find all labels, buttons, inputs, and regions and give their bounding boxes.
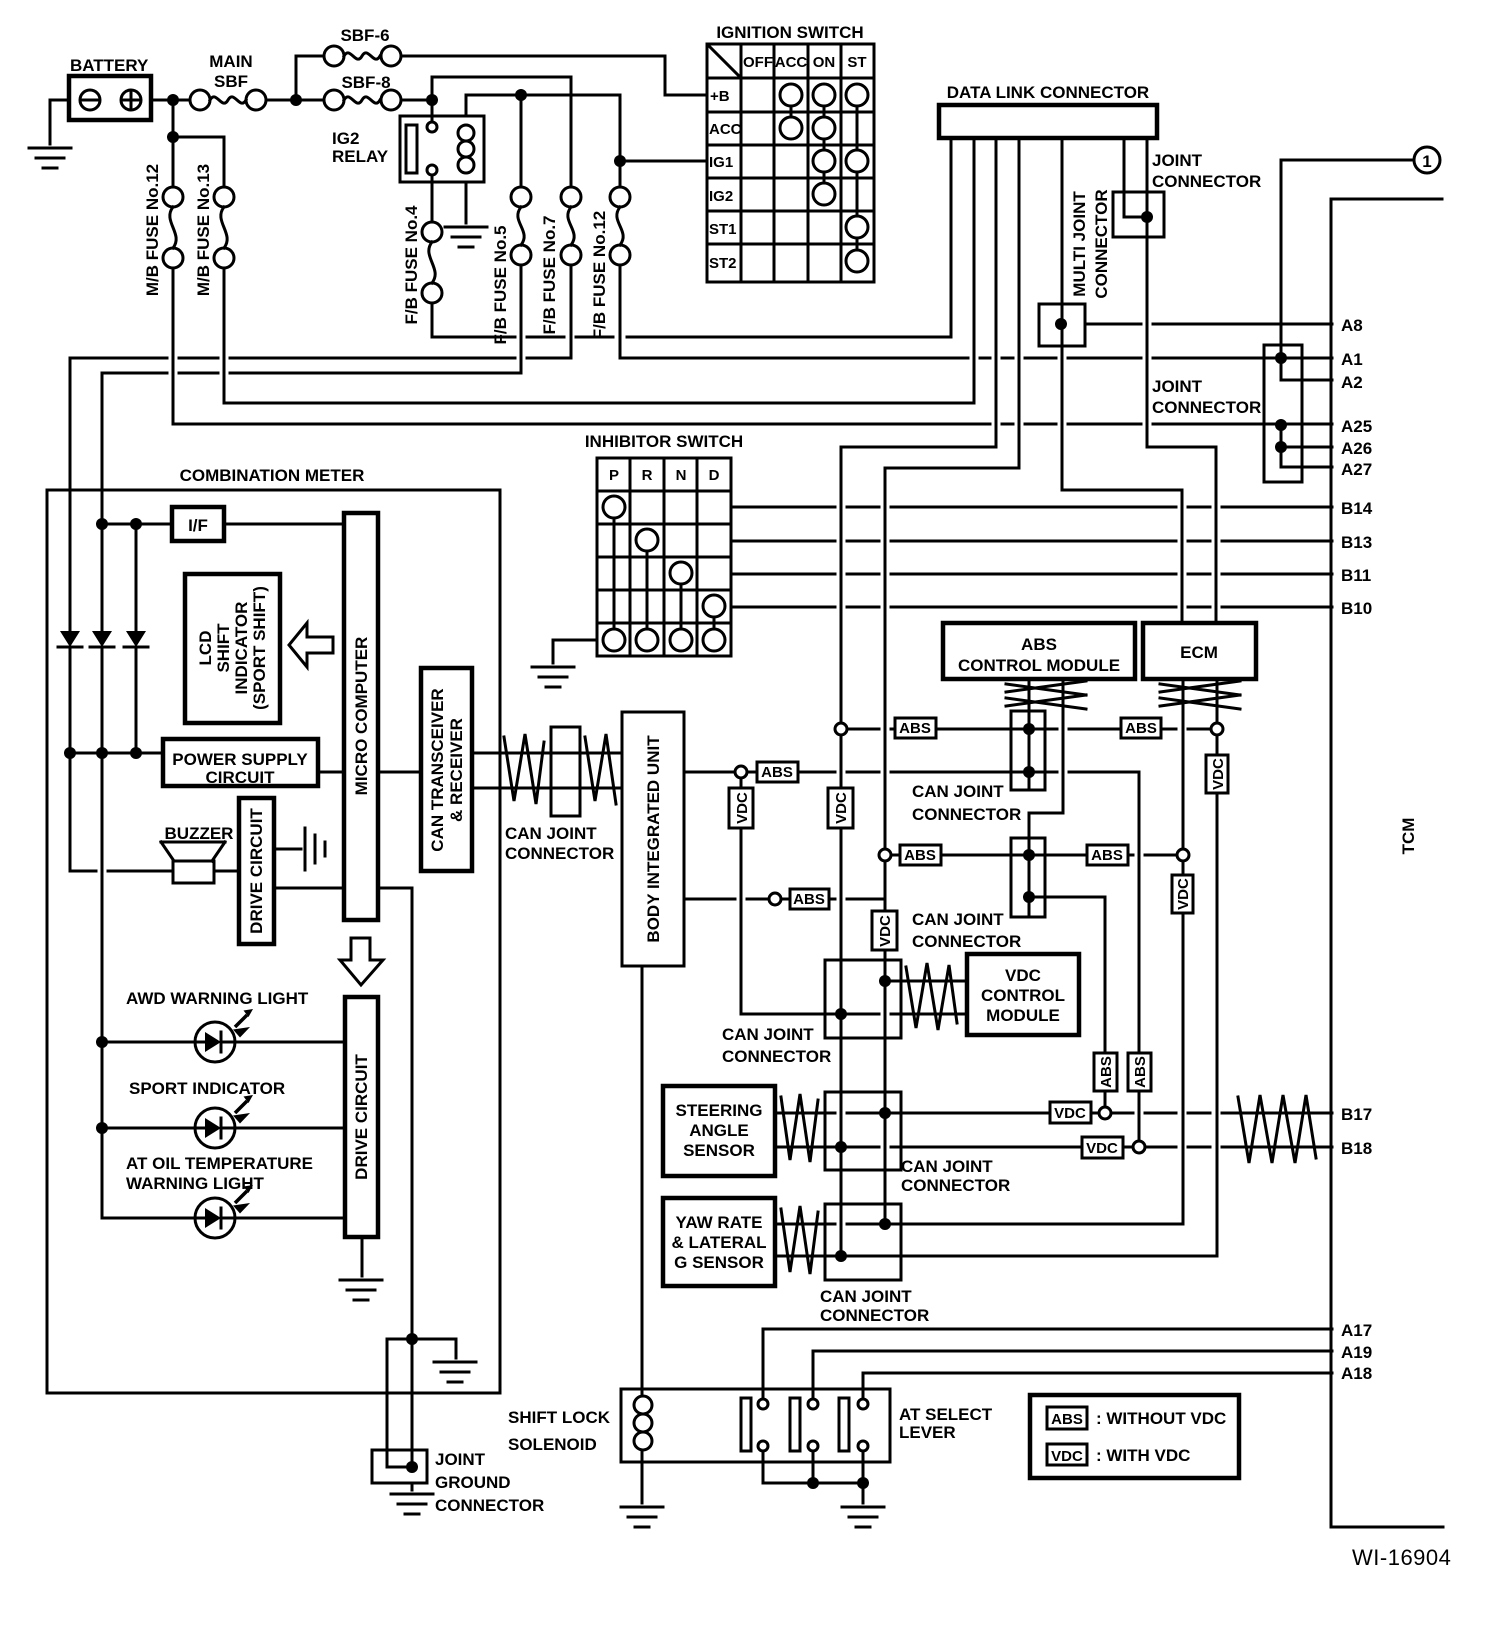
wire F/B FUSE No.12 to A1 line	[620, 265, 1332, 358]
ABS label box row2 left	[900, 845, 941, 865]
wire ABS control module right pin to CAN joint2	[1029, 679, 1063, 917]
inhibitor switch contact R	[636, 529, 658, 551]
svg-text:WARNING LIGHT: WARNING LIGHT	[126, 1174, 264, 1193]
wire steering sensor upper to CAN joint	[775, 1112, 885, 1115]
fuse SBF-6	[324, 46, 344, 66]
node connector B17 split	[1099, 1107, 1111, 1119]
wire AWD warning light row	[102, 1041, 345, 1044]
wire AT select switch2 to A19	[813, 1351, 1332, 1399]
svg-text:LCD: LCD	[196, 631, 215, 666]
svg-text:A18: A18	[1341, 1364, 1372, 1383]
wire F/B FUSE No.5 to combination meter	[102, 265, 521, 631]
inhibitor switch contact P	[603, 496, 625, 518]
VDC label box CAN-H bus	[828, 788, 853, 828]
svg-text:A25: A25	[1341, 417, 1372, 436]
LCD shift indicator box	[185, 574, 280, 723]
svg-text:B14: B14	[1341, 499, 1373, 518]
node junction AWD lamp	[96, 1036, 108, 1048]
ignition switch contact ST1 ST	[846, 216, 868, 238]
wire CAN-L to VDC control module	[885, 980, 967, 983]
steering angle sensor box	[663, 1086, 775, 1176]
svg-text:& RECEIVER: & RECEIVER	[447, 718, 466, 822]
AT select lever contact bar 3	[839, 1398, 849, 1451]
wire diode 2 branch down to warning lamps	[102, 647, 196, 1218]
svg-text:STEERING: STEERING	[676, 1101, 763, 1120]
fuse F/B FUSE No.12	[610, 187, 630, 207]
svg-text:BUZZER: BUZZER	[165, 824, 234, 843]
svg-text:SENSOR: SENSOR	[683, 1141, 755, 1160]
fuse F/B FUSE No.7	[561, 187, 581, 207]
svg-text:CAN JOINT: CAN JOINT	[722, 1025, 814, 1044]
AT select lever terminal switch1 bottom	[758, 1441, 768, 1451]
ignition switch contact +B ON	[813, 84, 835, 106]
CAN joint connector box 1	[1011, 711, 1045, 790]
wire A8 line	[1085, 323, 1332, 326]
ABS label box vertical B17 feed	[1094, 1053, 1117, 1091]
svg-text:CONNECTOR: CONNECTOR	[912, 805, 1021, 824]
wire M/B FUSE No.12 to A25 line	[173, 268, 1332, 424]
svg-text:VDC: VDC	[833, 792, 850, 824]
node 1 circle	[1414, 147, 1440, 173]
wire diode 1 branch down to power supply and buzzer	[70, 647, 173, 871]
LED AT oil temperature warning light	[195, 1198, 235, 1238]
IG2 relay contact pins	[427, 122, 437, 132]
svg-text:AWD WARNING LIGHT: AWD WARNING LIGHT	[126, 989, 309, 1008]
svg-text:: WITH VDC: : WITH VDC	[1096, 1446, 1190, 1465]
wire ECM left pin down to yaw CAN row	[1182, 679, 1185, 1224]
svg-text:ABS: ABS	[761, 764, 793, 781]
svg-text:SBF-6: SBF-6	[340, 26, 389, 45]
node junction meter ground	[406, 1333, 418, 1345]
arrow micro computer down	[340, 938, 383, 985]
TCM boundary	[1331, 199, 1443, 1527]
node junction I/F feed	[96, 518, 108, 530]
buzzer speaker symbol	[161, 842, 225, 861]
node junction power supply 3	[130, 747, 142, 759]
VDC label box BIU branch	[729, 788, 753, 828]
ground inhibitor switch	[532, 667, 574, 687]
svg-text:JOINT: JOINT	[1152, 151, 1203, 170]
ignition switch contact ACC ON	[813, 117, 835, 139]
svg-text:F/B FUSE No.5: F/B FUSE No.5	[491, 225, 510, 344]
wire relay coil to ground	[465, 182, 468, 223]
CAN joint connector box yaw	[825, 1204, 901, 1280]
wire inhibitor N to B11	[731, 573, 1332, 576]
svg-text:I/F: I/F	[188, 516, 208, 535]
svg-text:ABS: ABS	[1021, 635, 1057, 654]
node junction IG1 bus F/B5	[515, 89, 527, 101]
ABS label box row2 right	[1087, 845, 1128, 865]
svg-text:ABS: ABS	[1125, 720, 1157, 737]
svg-text:VDC: VDC	[1175, 878, 1192, 910]
inhibitor switch contact links	[614, 518, 714, 629]
shift lock solenoid coil	[634, 1396, 652, 1414]
fuse M/B FUSE No.12	[163, 187, 183, 207]
svg-text:A19: A19	[1341, 1343, 1372, 1362]
svg-text:AT OIL TEMPERATURE: AT OIL TEMPERATURE	[126, 1154, 313, 1173]
svg-text:MULTI JOINT: MULTI JOINT	[1070, 191, 1089, 297]
wire power supply feed line	[70, 752, 163, 755]
svg-text:: WITHOUT VDC: : WITHOUT VDC	[1096, 1409, 1226, 1428]
ground drive circuit	[305, 828, 325, 870]
ABS legend label box	[1047, 1407, 1087, 1429]
node junction yaw CAN joint upper	[879, 1218, 891, 1230]
inhibitor switch contact N	[670, 562, 692, 584]
svg-text:ABS: ABS	[1098, 1056, 1115, 1088]
arrow micro computer to LCD	[289, 623, 333, 667]
svg-text:INHIBITOR SWITCH: INHIBITOR SWITCH	[585, 432, 743, 451]
inhibitor switch contact N common	[670, 629, 692, 651]
wire AT select switch2 to common	[812, 1451, 815, 1483]
wire drive circuit to micro computer	[274, 887, 344, 890]
twisted pair CAN joint to VDC control module	[906, 963, 957, 1030]
fuse SBF-8	[324, 90, 344, 110]
svg-text:CONNECTOR: CONNECTOR	[1152, 172, 1261, 191]
VDC label box CAN-L bus	[872, 911, 897, 950]
ignition switch contact IG1 ST	[846, 150, 868, 172]
svg-text:CAN JOINT: CAN JOINT	[912, 782, 1004, 801]
svg-text:VDC: VDC	[734, 792, 751, 824]
twisted pair steering angle sensor	[781, 1094, 818, 1162]
node junction A26 joint	[1275, 441, 1287, 453]
svg-text:A8: A8	[1341, 316, 1363, 335]
svg-text:CONNECTOR: CONNECTOR	[722, 1047, 831, 1066]
wire sport indicator row	[102, 1127, 345, 1130]
svg-text:B11: B11	[1341, 566, 1371, 585]
ground combination meter	[434, 1362, 476, 1382]
svg-text:BODY INTEGRATED UNIT: BODY INTEGRATED UNIT	[644, 735, 663, 943]
node junction steering CAN joint upper	[879, 1107, 891, 1119]
svg-text:ANGLE: ANGLE	[689, 1121, 749, 1140]
inhibitor switch contact D common	[703, 629, 725, 651]
svg-text:B17: B17	[1341, 1105, 1372, 1124]
wire inhibitor switch to ground	[553, 640, 597, 663]
svg-text:INDICATOR: INDICATOR	[232, 602, 251, 695]
svg-text:SPORT INDICATOR: SPORT INDICATOR	[129, 1079, 285, 1098]
svg-text:IG2: IG2	[709, 188, 733, 205]
svg-text:VDC: VDC	[877, 915, 894, 947]
svg-text:YAW RATE: YAW RATE	[676, 1213, 763, 1232]
svg-text:BATTERY: BATTERY	[70, 56, 149, 75]
micro computer box	[344, 513, 378, 920]
node connector ECM CAN-L split	[1177, 849, 1189, 861]
svg-text:LEVER: LEVER	[899, 1423, 956, 1442]
node junction power supply 1	[64, 747, 76, 759]
yaw rate and lateral g sensor box	[663, 1198, 775, 1286]
node junction AT select common 2	[857, 1477, 869, 1489]
ABS label box BIU CAN-L	[790, 889, 829, 909]
wire CAN-L meter to body integrated unit	[472, 787, 622, 790]
svg-text:MAIN: MAIN	[209, 52, 252, 71]
svg-text:N: N	[676, 467, 687, 484]
node junction CAN joint mid H	[835, 1008, 847, 1020]
wire inhibitor R to B13	[731, 540, 1332, 543]
LED AWD warning light	[195, 1022, 235, 1062]
ECM box	[1143, 623, 1256, 679]
battery negative terminal	[80, 90, 100, 110]
node junction battery feed	[167, 94, 179, 106]
CAN joint connector box steering	[825, 1092, 901, 1170]
wire battery to MAIN SBF	[151, 99, 190, 102]
svg-text:ST2: ST2	[709, 255, 737, 272]
wire ground branch right	[412, 1339, 456, 1358]
node junction A25 joint	[1275, 419, 1287, 431]
svg-text:B13: B13	[1341, 533, 1372, 552]
ground AT select lever	[842, 1507, 884, 1527]
node junction CAN joint2 lower	[1023, 891, 1035, 903]
svg-text:VDC: VDC	[1086, 1140, 1118, 1157]
svg-text:SHIFT: SHIFT	[214, 623, 233, 673]
ground IG2 relay	[445, 227, 487, 247]
wire I/F to micro computer	[224, 523, 344, 526]
IG2 relay contact bar	[406, 125, 417, 173]
wire yaw sensor lower row to ECM	[775, 1255, 1217, 1258]
node connector BIU CAN-L split	[769, 893, 781, 905]
twisted pair B17 B18 to TCM	[1238, 1095, 1316, 1163]
node junction joint ground connector	[406, 1461, 418, 1473]
svg-text:CONNECTOR: CONNECTOR	[901, 1176, 1010, 1195]
diode D1	[58, 631, 82, 647]
node junction SBF-8 relay	[426, 94, 438, 106]
AT select lever terminal switch3 top	[858, 1399, 868, 1409]
VDC label box B18	[1082, 1137, 1123, 1158]
wire BIU CAN-H ABS row	[684, 771, 1057, 774]
svg-text:G SENSOR: G SENSOR	[674, 1253, 764, 1272]
ignition switch contact ACC ACC	[780, 117, 802, 139]
svg-text:SHIFT LOCK: SHIFT LOCK	[508, 1408, 611, 1427]
svg-text:ST1: ST1	[709, 221, 737, 238]
ABS label box BIU CAN-H	[757, 762, 798, 782]
node connector ECM CAN-H split	[1211, 723, 1223, 735]
wire drive circuit 2 to ground	[361, 1237, 364, 1276]
joint ground connector box	[372, 1450, 427, 1483]
AT select lever contact bar 1	[741, 1398, 751, 1451]
LED sport indicator	[195, 1108, 235, 1148]
wire body integrated unit to shift lock solenoid	[641, 966, 644, 1396]
svg-text:F/B FUSE No.12: F/B FUSE No.12	[590, 211, 609, 339]
svg-text:B18: B18	[1341, 1139, 1372, 1158]
shift lock solenoid and AT select lever box	[621, 1389, 890, 1462]
body integrated unit box	[622, 712, 684, 966]
node junction A1 joint	[1275, 352, 1287, 364]
svg-text:1: 1	[1422, 152, 1431, 171]
node junction multi joint connector A8	[1055, 318, 1067, 330]
svg-text:CAN JOINT: CAN JOINT	[505, 824, 597, 843]
svg-text:ST: ST	[847, 54, 866, 71]
node junction SBF branch	[290, 94, 302, 106]
svg-text:COMBINATION METER: COMBINATION METER	[180, 466, 365, 485]
wire branch to M/B FUSE No.13	[173, 137, 224, 187]
ignition switch table	[707, 44, 874, 282]
ABS label box row1 left	[895, 718, 936, 738]
wire CAN joint row continue to B18 feed	[1069, 772, 1139, 1142]
node connector CAN-L bus split	[879, 849, 891, 861]
svg-text:DRIVE CIRCUIT: DRIVE CIRCUIT	[247, 808, 266, 934]
twisted pair meter to CAN joint connector	[504, 734, 544, 804]
node junction M/B fuse branch	[167, 131, 179, 143]
wire CAN-H meter to body integrated unit	[472, 752, 622, 755]
battery B1 box	[69, 76, 151, 120]
svg-text:M/B FUSE No.13: M/B FUSE No.13	[194, 164, 213, 296]
wire CAN-H to VDC control module	[841, 1013, 967, 1016]
wire inhibitor P to B14	[731, 506, 1332, 509]
data link connector box	[939, 105, 1157, 138]
svg-text:CONNECTOR: CONNECTOR	[1152, 398, 1261, 417]
svg-text:CONNECTOR: CONNECTOR	[505, 844, 614, 863]
power supply circuit box	[163, 739, 318, 786]
ignition switch header diagonal	[708, 45, 740, 77]
legend box	[1030, 1395, 1239, 1478]
wire CAN-H ABS row to ECM	[846, 728, 1212, 731]
wire AT select switch1 to A17	[763, 1329, 1332, 1399]
fuse MAIN SBF	[190, 90, 210, 110]
diode D3	[124, 631, 148, 647]
VDC label box B17	[1050, 1102, 1091, 1123]
CAN joint connector box 2	[1011, 838, 1045, 917]
wire CAN joint1 internal	[1028, 711, 1031, 790]
svg-text:CONNECTOR: CONNECTOR	[820, 1306, 929, 1325]
joint connector box top	[1113, 192, 1164, 237]
ignition switch contact +B ST	[846, 84, 868, 106]
wire SBF-6 to ignition switch +B	[401, 56, 707, 95]
svg-text:ABS: ABS	[1132, 1056, 1149, 1088]
svg-text:ABS: ABS	[1051, 1411, 1083, 1428]
wire M/B FUSE No.13 to data link connector pin2	[224, 138, 974, 403]
wire data link connector pin3 to CAN-H bus	[841, 138, 996, 1256]
wire junction to IG2 relay contact	[431, 100, 434, 122]
svg-text:ABS: ABS	[1091, 847, 1123, 864]
wire ground branch into joint ground connector	[387, 1339, 412, 1467]
svg-text:ACC: ACC	[775, 54, 808, 71]
IG2 relay coil	[458, 125, 474, 141]
node junction power supply 2	[96, 747, 108, 759]
wire BIU CAN-L ABS row	[684, 898, 885, 901]
svg-text:RELAY: RELAY	[332, 147, 389, 166]
wire data link connector pin7 to ECM	[1147, 138, 1216, 623]
svg-text:CAN JOINT: CAN JOINT	[901, 1157, 993, 1176]
wire IG1 to ignition switch	[620, 160, 707, 163]
ignition switch contact IG2 ON	[813, 183, 835, 205]
svg-text:(SPORT SHIFT): (SPORT SHIFT)	[250, 586, 269, 710]
wire AT select lever common link	[763, 1451, 863, 1483]
VDC control module box	[967, 954, 1079, 1035]
ABS label box row1 right	[1121, 718, 1161, 738]
ABS label box vertical B18 feed	[1128, 1053, 1151, 1091]
AT select lever contact bar 2	[790, 1398, 800, 1451]
wire data link connector pin5 through multi joint connector to ECM	[1062, 138, 1182, 623]
wire joint ground connector to ground	[411, 1483, 414, 1490]
svg-text:CONTROL: CONTROL	[981, 986, 1065, 1005]
drive circuit box	[239, 798, 274, 944]
wire node to F/B FUSE No.5	[520, 95, 523, 187]
wire battery junction to M/B FUSE No.12	[172, 100, 175, 187]
diode D2	[90, 631, 114, 647]
wire steering sensor lower to CAN joint	[775, 1146, 841, 1149]
fuse M/B FUSE No.13	[214, 187, 234, 207]
svg-text:A2: A2	[1341, 373, 1363, 392]
svg-text:CONNECTOR: CONNECTOR	[435, 1496, 544, 1515]
VDC label box ECM right	[1206, 755, 1228, 793]
node junction sport lamp	[96, 1122, 108, 1134]
wire B18 line	[846, 1146, 1332, 1149]
wire B17 line	[885, 1112, 1332, 1115]
twisted pair below ECM	[1160, 681, 1240, 709]
svg-text:ECM: ECM	[1180, 643, 1218, 662]
svg-text:D: D	[709, 467, 720, 484]
twisted pair below ABS control module	[1006, 681, 1086, 709]
svg-text:ACC: ACC	[709, 121, 742, 138]
svg-text:CONNECTOR: CONNECTOR	[912, 932, 1021, 951]
ground battery	[29, 148, 71, 168]
svg-text:OFF: OFF	[743, 54, 773, 71]
svg-text:F/B FUSE No.4: F/B FUSE No.4	[402, 205, 421, 325]
wire MAIN SBF to SBF junction	[266, 99, 324, 102]
IG2 relay box	[400, 116, 484, 182]
svg-text:GROUND: GROUND	[435, 1473, 511, 1492]
node junction AT select common 1	[807, 1477, 819, 1489]
wire data link connector pin4 to CAN-L bus	[885, 138, 1019, 1224]
ignition switch contact +B ACC	[780, 84, 802, 106]
node junction joint connector top	[1141, 211, 1153, 223]
node connector CAN-H bus split	[835, 723, 847, 735]
wire junction up to SBF-6	[296, 56, 324, 100]
wire power supply to micro computer	[318, 771, 344, 774]
ABS control module box	[943, 623, 1135, 679]
svg-text:VDC: VDC	[1005, 966, 1041, 985]
svg-text:ABS: ABS	[899, 720, 931, 737]
inhibitor switch table	[597, 458, 731, 656]
node junction CAN joint mid L	[879, 975, 891, 987]
AT select lever terminal switch2 bottom	[808, 1441, 818, 1451]
node junction steering CAN joint lower	[835, 1141, 847, 1153]
wire micro computer to CAN transceiver	[378, 771, 421, 774]
svg-text:POWER SUPPLY: POWER SUPPLY	[172, 750, 308, 769]
wire buzzer to drive circuit	[214, 870, 239, 873]
wire F/B FUSE No.4 to data link connector pin1	[432, 138, 951, 337]
svg-text:VDC: VDC	[1210, 758, 1227, 790]
svg-text:CAN JOINT: CAN JOINT	[820, 1287, 912, 1306]
wire junction over to F/B FUSE No.7	[432, 77, 571, 187]
wire relay contact to F/B FUSE No.4	[431, 175, 434, 222]
wire I/F feed branch	[135, 524, 138, 631]
svg-text:+B: +B	[710, 88, 730, 105]
svg-text:DATA LINK CONNECTOR: DATA LINK CONNECTOR	[947, 83, 1149, 102]
wire AT select common to ground	[862, 1483, 865, 1503]
ground drive circuit 2	[340, 1280, 382, 1300]
ignition switch contact links	[791, 106, 857, 250]
ground joint ground connector	[391, 1494, 433, 1514]
CAN joint connector box meter	[551, 727, 580, 816]
wire diode 3 to power supply line	[135, 647, 138, 753]
node junction I/F branch	[130, 518, 142, 530]
svg-text:AT SELECT: AT SELECT	[899, 1405, 993, 1424]
wire F/B FUSE No.7 to combination meter	[70, 265, 571, 631]
ignition switch contact IG1 ON	[813, 150, 835, 172]
svg-text:A17: A17	[1341, 1321, 1372, 1340]
svg-text:WI-16904: WI-16904	[1352, 1545, 1451, 1570]
svg-text:ABS: ABS	[904, 847, 936, 864]
CAN transceiver and receiver box	[421, 668, 472, 871]
svg-text:IG1: IG1	[709, 154, 733, 171]
combination meter box	[47, 490, 500, 1393]
node connector B18 split	[1133, 1141, 1145, 1153]
wire yaw sensor upper row to ECM	[775, 1223, 1183, 1226]
node connector BIU CAN-H split	[735, 766, 747, 778]
svg-text:A1: A1	[1341, 350, 1363, 369]
fuse F/B FUSE No.5	[511, 187, 531, 207]
svg-text:SOLENOID: SOLENOID	[508, 1435, 597, 1454]
CAN joint connector box mid	[825, 960, 901, 1038]
